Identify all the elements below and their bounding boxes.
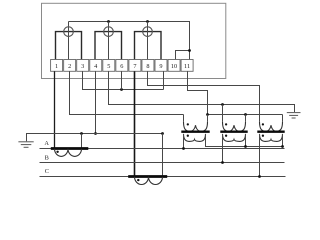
node: PT2 secondary b drop from bus: [221, 103, 224, 106]
PT2 secondary winding (top): [223, 105, 246, 122]
svg-text:9: 9: [159, 63, 162, 70]
svg-text:6: 6: [120, 63, 123, 70]
svg-text:A: A: [44, 140, 49, 147]
PT1 primary return lead to HV common: [206, 134, 283, 147]
node: terminal 6 joins H1: [120, 88, 123, 91]
wire terminal 8 to PT3 secondary c (H2): [148, 71, 260, 122]
wire terminal 4 to CT common bus: [95, 71, 97, 133]
phase line B: [40, 162, 285, 164]
terminal numbers 1-11: [55, 63, 190, 70]
voltage bus (top, to terminal 11): [69, 22, 190, 60]
node: voltage coil 2 tap on top bus: [107, 20, 110, 23]
PT3 primary lead to phase C: [259, 134, 261, 177]
CT2 secondary winding: [135, 177, 163, 185]
CT1 secondary winding: [55, 149, 82, 157]
CT1 polarity dot: [56, 151, 58, 153]
node: CT2 S2 on common bus: [161, 132, 164, 135]
wire jumper to terminal 10: [176, 51, 190, 60]
meter case (outer box): [42, 3, 226, 78]
wire terminal 7 to CT2 lead (phase C): [134, 71, 136, 176]
PT1 secondary winding (top): [184, 115, 208, 122]
wire CT2 S2 lead down: [162, 134, 164, 177]
element 1 voltage coil lead (to terminal 2): [68, 22, 70, 60]
wire terminal 1 to CT1 P1/S1 lead: [54, 71, 56, 148]
PT1 polarity dots: [187, 123, 189, 125]
PT3 polarity dots: [262, 123, 264, 125]
element 2 voltage coil U2: [104, 27, 114, 37]
phase line C: [40, 176, 286, 178]
wire terminal 5 to grounded PT secondary b bus: [109, 71, 295, 112]
element 3 voltage coil U3: [143, 27, 153, 37]
PT1 (phase A): [181, 115, 282, 150]
CT2 primary bar (phase C): [128, 175, 167, 178]
svg-text:11: 11: [184, 63, 190, 70]
PT2 primary return lead to HV common: [245, 134, 247, 147]
svg-text:3: 3: [81, 63, 84, 70]
node: terminal 4 on CT common bus: [94, 132, 97, 135]
node: PT2 return on HV common: [244, 145, 247, 148]
element 3 voltage coil lead (to terminal 8): [147, 22, 149, 60]
phase line A: [40, 148, 285, 150]
wire terminal 9 down across H2 to H1 end: [163, 71, 165, 89]
wire terminal 2 to PT1 secondary a: [70, 71, 184, 114]
node: CT1 S2 on common bus: [80, 132, 83, 135]
PT2 polarity dots: [225, 123, 227, 125]
svg-text:B: B: [45, 154, 49, 161]
PT3 primary winding (bottom): [260, 134, 283, 142]
node: terminal 10 jumper on neutral drop: [188, 49, 191, 52]
node: PT3 primary on phase C: [258, 175, 261, 178]
svg-text:10: 10: [171, 63, 177, 70]
ground symbol (left, CT common): [18, 142, 33, 148]
svg-text:C: C: [45, 168, 49, 175]
CT secondary common (grounded) bus: [27, 134, 163, 142]
PT secondary common bus: [208, 114, 283, 116]
svg-text:1: 1: [55, 63, 58, 70]
PT2 (phase B): [220, 105, 247, 164]
node: voltage coil 3 tap on top bus: [146, 20, 149, 23]
PT1 core: [181, 130, 209, 132]
CT2 polarity dot: [137, 179, 139, 181]
PT2 core: [220, 130, 247, 132]
svg-text:8: 8: [146, 63, 149, 70]
CT1 primary bar (phase A): [51, 147, 89, 150]
element 2 current coil bracket (terminals 4-6): [95, 32, 122, 60]
element 2 voltage coil lead (to terminal 5): [108, 22, 110, 60]
PT1 primary winding (bottom): [184, 134, 206, 142]
node: PT1 primary on phase A: [182, 147, 185, 150]
PT3 primary return lead to HV common: [282, 134, 284, 147]
wire terminal 3 to common H1: [83, 71, 164, 89]
node: PT1 secondary x on common: [206, 113, 209, 116]
PT3 secondary winding (top): [282, 115, 284, 122]
svg-text:2: 2: [68, 63, 71, 70]
PT1 primary lead to phase A: [183, 134, 185, 149]
PT2 primary winding (bottom): [223, 134, 246, 142]
PT2 primary lead to phase B: [222, 134, 224, 163]
wire CT1 S2 lead down: [81, 134, 83, 149]
node: PT2 primary on phase B: [221, 161, 224, 164]
terminal strip boxes 1-11: [51, 60, 194, 72]
element 1 voltage coil U1: [64, 27, 74, 37]
svg-text:5: 5: [107, 63, 110, 70]
element 3 current coil bracket (terminals 7-9): [135, 32, 162, 60]
PT3 (phase C): [257, 115, 284, 178]
wire terminal 11 to PT secondary common: [188, 71, 208, 114]
wire terminal 6 down to H1: [121, 71, 123, 89]
svg-text:7: 7: [133, 63, 136, 70]
ground symbol (right, PT secondary b): [287, 113, 301, 118]
node: PT2 secondary x on common: [244, 113, 247, 116]
PT3 core: [257, 130, 284, 132]
element 1 current coil bracket (terminals 1-3): [56, 32, 82, 60]
node: PT3 return on HV common (end): [281, 145, 284, 148]
